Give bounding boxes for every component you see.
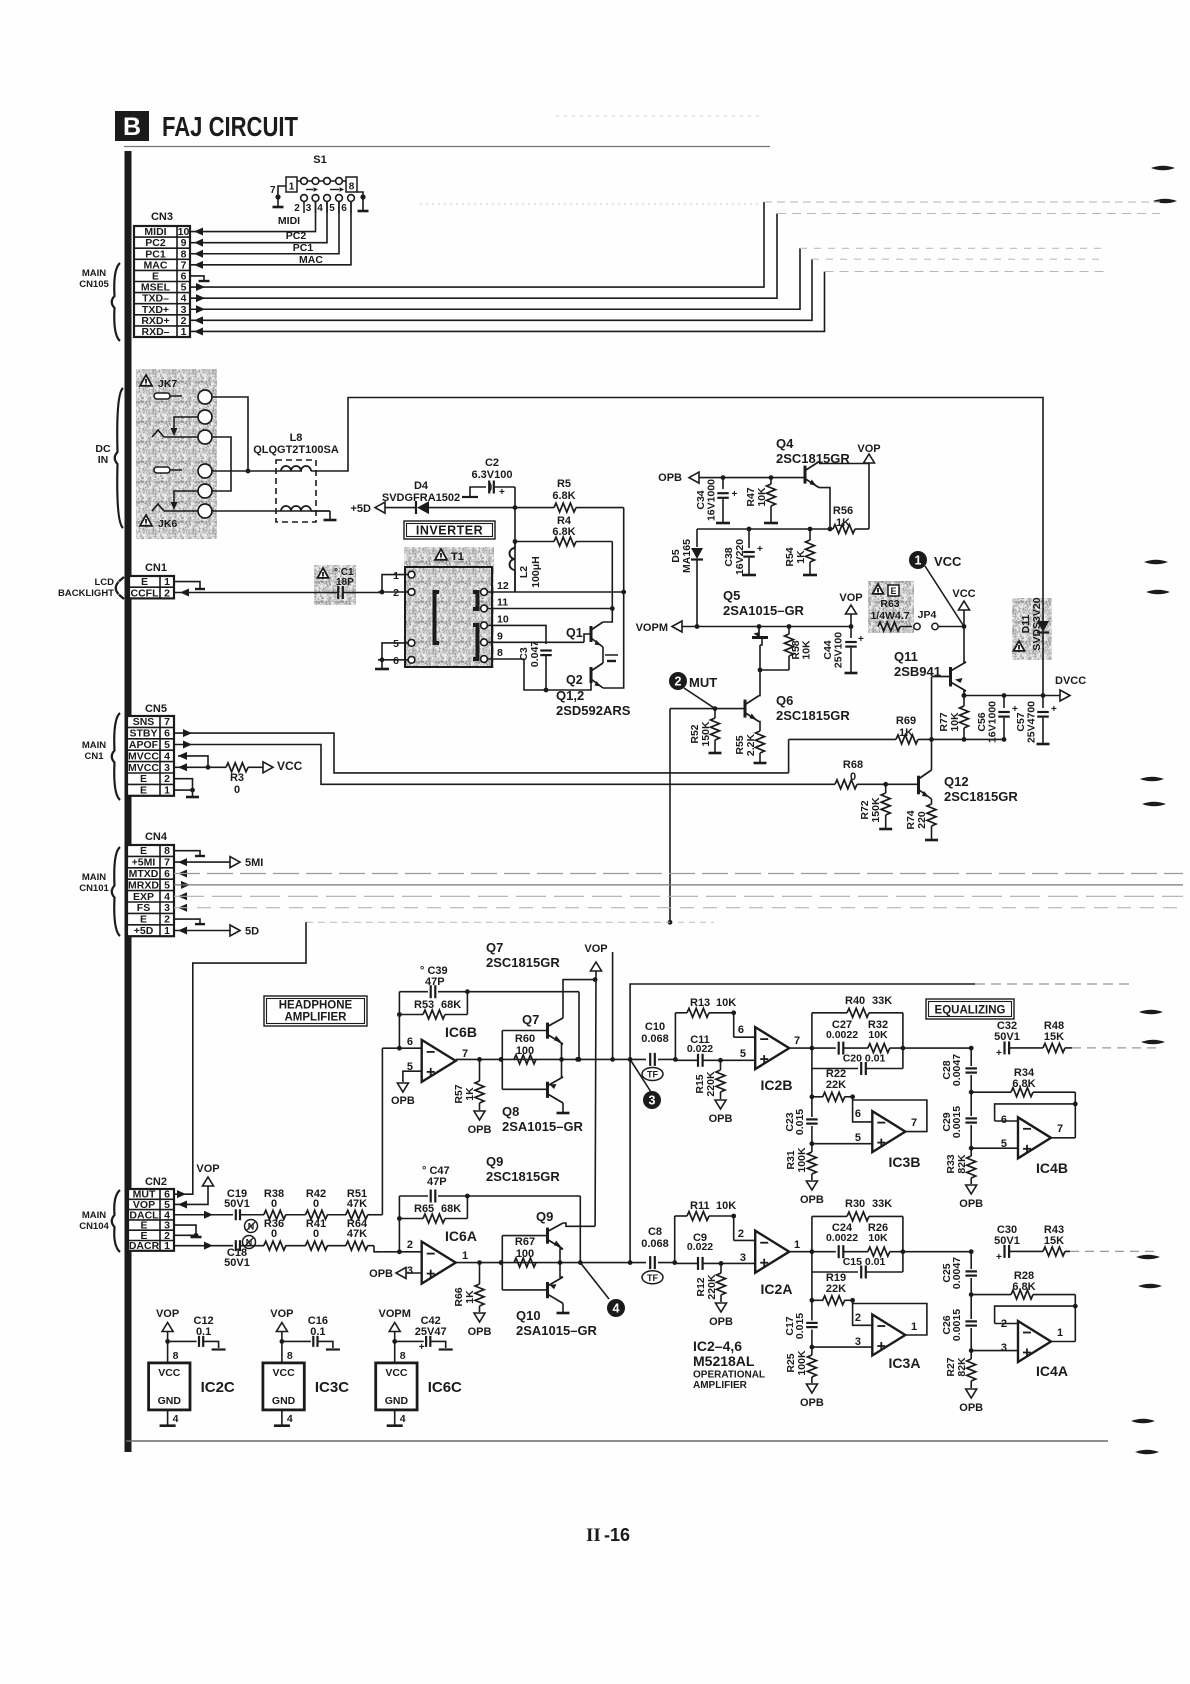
svg-text:MAIN: MAIN bbox=[82, 1210, 106, 1221]
svg-text:AMPLIFIER: AMPLIFIER bbox=[693, 1380, 748, 1391]
wire IC2A output bbox=[789, 1249, 836, 1254]
resistor R4 6.8K bbox=[513, 508, 613, 592]
svg-text:MVCC: MVCC bbox=[128, 750, 159, 762]
title underline bbox=[124, 146, 770, 148]
ground CN4 pin E2 bbox=[174, 919, 205, 924]
svg-text:10K: 10K bbox=[716, 997, 736, 1009]
resistor R38 0 bbox=[264, 1188, 306, 1219]
svg-text:7: 7 bbox=[164, 857, 170, 869]
resistor R12 220K bbox=[695, 1263, 733, 1328]
svg-text:R13: R13 bbox=[690, 997, 710, 1009]
svg-text:MAIN: MAIN bbox=[82, 268, 106, 279]
svg-text:VOPM: VOPM bbox=[636, 622, 668, 634]
ic IC2C bbox=[149, 1308, 235, 1426]
svg-text:2: 2 bbox=[294, 203, 300, 214]
svg-text:STBY: STBY bbox=[129, 728, 157, 740]
wire T1 pin9 to Q1 base bbox=[487, 634, 591, 642]
svg-text:OPB: OPB bbox=[959, 1198, 983, 1210]
svg-text:100K: 100K bbox=[796, 1147, 808, 1173]
svg-text:1/4W4.7: 1/4W4.7 bbox=[870, 610, 909, 622]
svg-text:10K: 10K bbox=[756, 487, 768, 507]
net VOP arrow Q5 bbox=[839, 592, 862, 629]
capacitor C9 0.022 bbox=[675, 1232, 756, 1270]
resistor R55 2.2K bbox=[734, 731, 767, 763]
svg-text:0.0022: 0.0022 bbox=[826, 1232, 858, 1244]
svg-text:25V100: 25V100 bbox=[833, 632, 845, 668]
svg-text:22K: 22K bbox=[826, 1283, 846, 1295]
svg-text:-16: -16 bbox=[604, 1525, 630, 1545]
op-amp IC2A bbox=[738, 1228, 800, 1297]
svg-text:+: + bbox=[732, 489, 738, 500]
connector CN5 bbox=[127, 703, 174, 797]
wire +5MI bbox=[174, 857, 263, 870]
op-amp IC6B bbox=[382, 1024, 501, 1082]
svg-text:0.1: 0.1 bbox=[310, 1326, 325, 1338]
capacitor C25 0.0047 bbox=[941, 1249, 977, 1297]
svg-text:0.047: 0.047 bbox=[529, 641, 541, 667]
svg-text:R65: R65 bbox=[414, 1203, 434, 1215]
capacitor C15 0.01 bbox=[812, 1252, 903, 1279]
svg-text:2: 2 bbox=[164, 914, 170, 926]
resistor R5 6.8K bbox=[513, 478, 624, 512]
label MAIN CN105 bbox=[79, 263, 120, 341]
resistor R64 47K bbox=[346, 1218, 383, 1252]
inductor L8 bbox=[253, 432, 339, 522]
resistor R31 100K bbox=[785, 1144, 824, 1206]
svg-text:MAC: MAC bbox=[299, 254, 323, 266]
resistor R72 150K bbox=[859, 784, 892, 829]
connector CN3 bbox=[134, 211, 190, 338]
diode D4 SVDGFRA1502 bbox=[382, 480, 515, 514]
net VCC arrow R3 bbox=[263, 759, 303, 773]
wire bias line Q4 bbox=[697, 527, 833, 532]
svg-text:MVCC: MVCC bbox=[128, 762, 159, 774]
svg-text:E: E bbox=[890, 586, 896, 596]
svg-text:22K: 22K bbox=[826, 1079, 846, 1091]
capacitor C19 50V1 bbox=[174, 1188, 264, 1220]
svg-text:2: 2 bbox=[164, 587, 170, 599]
svg-text:SVDGFRA1502: SVDGFRA1502 bbox=[382, 492, 460, 504]
svg-text:IC6B: IC6B bbox=[445, 1024, 477, 1040]
resistor R48 15K bbox=[1009, 1020, 1160, 1052]
transistor Q4 2SC1815GR bbox=[776, 436, 850, 488]
resistor R15 220K bbox=[694, 1060, 732, 1125]
wire net vertical x612 bbox=[612, 952, 614, 1059]
wire TXD+ bbox=[190, 248, 1105, 313]
svg-text:2SA1015–GR: 2SA1015–GR bbox=[723, 603, 805, 618]
svg-text:7: 7 bbox=[270, 185, 276, 196]
resistor R56 1K bbox=[697, 505, 869, 534]
svg-text:6: 6 bbox=[164, 868, 170, 880]
capacitor C1 18P bbox=[174, 565, 382, 605]
svg-text:3: 3 bbox=[649, 1094, 656, 1108]
print artifacts right edge bbox=[1131, 166, 1177, 1455]
wire feedback to output IC6B bbox=[467, 992, 581, 1062]
svg-text:HEADPHONE: HEADPHONE bbox=[279, 1000, 353, 1012]
svg-text:1: 1 bbox=[164, 925, 170, 937]
svg-text:5: 5 bbox=[164, 879, 170, 891]
resistor R74 220 bbox=[905, 804, 938, 840]
svg-text:CN2: CN2 bbox=[145, 1176, 167, 1188]
svg-text:OPB: OPB bbox=[468, 1124, 492, 1136]
resistor R53 68K bbox=[397, 992, 467, 1048]
svg-text:47K: 47K bbox=[347, 1198, 367, 1210]
numbered node 2 MUT bbox=[669, 672, 717, 709]
ground CN4 pin E8 bbox=[174, 851, 205, 856]
svg-text:IC6C: IC6C bbox=[428, 1379, 462, 1396]
svg-text:6: 6 bbox=[738, 1024, 744, 1036]
svg-text:3: 3 bbox=[407, 1265, 413, 1277]
resistor R30 33K bbox=[812, 1198, 903, 1252]
resistor R41 0 bbox=[306, 1218, 347, 1250]
svg-text:6: 6 bbox=[164, 728, 170, 740]
svg-text:Q11: Q11 bbox=[894, 649, 918, 664]
svg-text:Q4: Q4 bbox=[776, 436, 794, 451]
capacitor C27 0.0022 bbox=[826, 1019, 868, 1055]
wire T1 pin10 to C3 bbox=[487, 625, 546, 644]
wire DVCC rail bbox=[962, 693, 1060, 698]
wire CN2 VOP to VOP arrow bbox=[174, 1163, 220, 1208]
svg-text:0.015: 0.015 bbox=[794, 1109, 806, 1135]
label IC2-4,6 M5218AL bbox=[693, 1338, 765, 1391]
svg-text:7: 7 bbox=[911, 1117, 917, 1129]
ground CN5 E pins bbox=[174, 779, 199, 797]
svg-text:10K: 10K bbox=[949, 712, 961, 732]
capacitor C47 47P bbox=[399, 1165, 469, 1203]
svg-text:GND: GND bbox=[158, 1395, 182, 1407]
wire CN2 MUT arrow bbox=[177, 1190, 186, 1198]
svg-text:6.8K: 6.8K bbox=[552, 490, 575, 502]
svg-text:MA165: MA165 bbox=[681, 539, 693, 573]
resistor R65 68K bbox=[397, 1196, 467, 1252]
svg-text:OPB: OPB bbox=[658, 472, 682, 484]
svg-text:10K: 10K bbox=[716, 1200, 736, 1212]
svg-text:3: 3 bbox=[164, 762, 170, 774]
ground OPB IC6B pin5 bbox=[391, 1083, 415, 1107]
title text FAJ CIRCUIT bbox=[162, 111, 298, 142]
capacitor C3 0.047 bbox=[518, 641, 552, 690]
resistor R33 82K bbox=[945, 1148, 983, 1210]
svg-text:8: 8 bbox=[400, 1350, 406, 1362]
capacitor C20 0.01 bbox=[812, 1048, 903, 1075]
svg-text:1: 1 bbox=[164, 785, 170, 797]
wire +5D bbox=[174, 925, 259, 938]
svg-text:E: E bbox=[140, 785, 147, 797]
op-amp IC3A bbox=[853, 1304, 927, 1372]
svg-text:2: 2 bbox=[164, 773, 170, 785]
svg-text:0: 0 bbox=[313, 1228, 319, 1240]
wire MRXD bbox=[174, 881, 1183, 889]
svg-text:T1: T1 bbox=[451, 551, 464, 563]
svg-text:5MI: 5MI bbox=[245, 857, 263, 869]
svg-text:Q2: Q2 bbox=[566, 673, 583, 687]
wire DC feed to DVCC rail bbox=[311, 398, 1043, 696]
wire STBY bbox=[174, 729, 789, 773]
svg-text:IC3B: IC3B bbox=[889, 1154, 921, 1170]
net +5D arrow bbox=[351, 502, 386, 515]
svg-text:+: + bbox=[858, 634, 864, 645]
label LCD BACKLIGHT bbox=[58, 577, 124, 599]
svg-text:+: + bbox=[757, 544, 763, 555]
svg-text:2SC1815GR: 2SC1815GR bbox=[486, 1169, 560, 1184]
svg-text:CN101: CN101 bbox=[79, 883, 109, 894]
svg-text:OPB: OPB bbox=[959, 1402, 983, 1414]
svg-text:6: 6 bbox=[407, 1036, 413, 1048]
capacitor C26 0.0015 bbox=[941, 1295, 977, 1353]
svg-text:E: E bbox=[140, 773, 147, 785]
svg-text:0.068: 0.068 bbox=[641, 1238, 669, 1250]
svg-text:CN3: CN3 bbox=[151, 211, 173, 223]
svg-text:C15 0.01: C15 0.01 bbox=[843, 1256, 886, 1268]
wire MIDI from S1 bbox=[190, 202, 316, 236]
svg-text:C10: C10 bbox=[645, 1021, 665, 1033]
svg-text:50V1: 50V1 bbox=[994, 1235, 1020, 1247]
svg-text:25V4700: 25V4700 bbox=[1026, 701, 1038, 743]
net VCC arrow bbox=[952, 588, 975, 629]
capacitor C30 50V1 bbox=[994, 1224, 1020, 1263]
resistor R3 0 bbox=[174, 763, 263, 796]
svg-text:1: 1 bbox=[462, 1250, 468, 1262]
capacitor C2 6.3V100 bbox=[462, 457, 515, 508]
wire RXD- bbox=[190, 272, 1105, 336]
svg-text:L2: L2 bbox=[518, 566, 530, 578]
svg-text:IC3C: IC3C bbox=[315, 1379, 349, 1396]
svg-text:R11: R11 bbox=[690, 1200, 710, 1212]
svg-text:68K: 68K bbox=[441, 999, 461, 1011]
svg-text:CCFL: CCFL bbox=[131, 587, 160, 599]
svg-text:QLQGT2T100SA: QLQGT2T100SA bbox=[253, 444, 339, 456]
svg-text:2SC1815GR: 2SC1815GR bbox=[486, 955, 560, 970]
svg-text:JK7: JK7 bbox=[158, 378, 177, 390]
svg-text:100: 100 bbox=[516, 1248, 534, 1260]
svg-text:68K: 68K bbox=[441, 1203, 461, 1215]
svg-text:+: + bbox=[996, 1252, 1002, 1263]
svg-text:IC2A: IC2A bbox=[761, 1281, 793, 1297]
transistor Q1 bbox=[566, 622, 603, 647]
resistor R11 10K bbox=[672, 1200, 755, 1265]
svg-text:5: 5 bbox=[740, 1048, 746, 1060]
svg-text:MUT: MUT bbox=[689, 675, 717, 690]
svg-text:PC1: PC1 bbox=[293, 242, 314, 254]
svg-text:8: 8 bbox=[497, 647, 503, 659]
svg-text:7: 7 bbox=[794, 1035, 800, 1047]
svg-text:0: 0 bbox=[234, 784, 240, 796]
wire equalizing feed top bbox=[628, 984, 1130, 1265]
svg-text:8: 8 bbox=[349, 182, 355, 193]
svg-text:10K: 10K bbox=[868, 1029, 888, 1041]
svg-text:R40: R40 bbox=[845, 995, 865, 1007]
svg-text:TF: TF bbox=[647, 1273, 658, 1283]
resistor R27 82K bbox=[945, 1351, 983, 1414]
net VOP arrow Q4 bbox=[857, 443, 880, 529]
svg-text:6.8K: 6.8K bbox=[1012, 1281, 1035, 1293]
svg-text:+: + bbox=[996, 1048, 1002, 1059]
resistor R52 150K bbox=[689, 709, 722, 753]
svg-text:MIDI: MIDI bbox=[278, 215, 300, 227]
svg-text:7: 7 bbox=[164, 716, 170, 728]
svg-text:15K: 15K bbox=[1044, 1235, 1064, 1247]
capacitor C38 16V220 bbox=[723, 527, 763, 576]
svg-text:10K: 10K bbox=[868, 1232, 888, 1244]
svg-text:50V1: 50V1 bbox=[224, 1257, 250, 1269]
label MAIN CN104 bbox=[79, 1190, 120, 1252]
svg-text:OPB: OPB bbox=[800, 1397, 824, 1409]
resistor R32 10K bbox=[844, 1019, 971, 1053]
wire IC4B feedback bbox=[995, 1104, 1076, 1121]
svg-text:Q10: Q10 bbox=[516, 1308, 541, 1323]
svg-text:220K: 220K bbox=[706, 1274, 718, 1300]
svg-text:Q12: Q12 bbox=[944, 774, 969, 789]
svg-text:0: 0 bbox=[271, 1198, 277, 1210]
svg-text:220: 220 bbox=[916, 811, 928, 829]
transistor Q8 2SA1015-GR bbox=[502, 1059, 584, 1134]
ground CN3 pin E bbox=[190, 276, 210, 281]
svg-text:MAIN: MAIN bbox=[82, 740, 106, 751]
svg-text:EQUALIZING: EQUALIZING bbox=[935, 1005, 1006, 1017]
svg-text:FAJ CIRCUIT: FAJ CIRCUIT bbox=[162, 111, 298, 142]
svg-text:VOP: VOP bbox=[839, 592, 862, 604]
svg-text:2SA1015–GR: 2SA1015–GR bbox=[516, 1323, 598, 1338]
svg-text:3: 3 bbox=[306, 203, 312, 214]
title block B bbox=[115, 111, 149, 141]
capacitor C28 0.0047 bbox=[941, 1046, 977, 1095]
resistor R68 0 bbox=[835, 759, 888, 789]
svg-text:Q8: Q8 bbox=[502, 1104, 519, 1119]
svg-text:Q1: Q1 bbox=[566, 626, 583, 640]
svg-text:Q5: Q5 bbox=[723, 588, 740, 603]
svg-text:Q7: Q7 bbox=[486, 940, 503, 955]
transistor Q6 2SC1815GR bbox=[745, 668, 850, 731]
resistor R54 1K bbox=[784, 527, 817, 575]
svg-text:47P: 47P bbox=[427, 1176, 447, 1188]
diode D11 SVDS3V20 bbox=[1012, 597, 1052, 660]
svg-text:1: 1 bbox=[289, 182, 295, 193]
capacitor C11 0.022 bbox=[675, 1034, 755, 1067]
capacitor C34 16V1000 bbox=[695, 475, 738, 523]
svg-text:4: 4 bbox=[164, 891, 170, 903]
label Q1,2 2SD592ARS bbox=[556, 688, 631, 718]
svg-text:8: 8 bbox=[287, 1350, 293, 1362]
svg-text:5: 5 bbox=[393, 638, 399, 650]
capacitor C18 50V1 bbox=[174, 1240, 264, 1269]
svg-text:BACKLIGHT: BACKLIGHT bbox=[58, 588, 114, 599]
svg-text:3: 3 bbox=[855, 1336, 861, 1348]
svg-text:3: 3 bbox=[1001, 1342, 1007, 1354]
svg-text:CN5: CN5 bbox=[145, 703, 167, 715]
svg-text:JK6: JK6 bbox=[158, 518, 177, 530]
wire FS bbox=[174, 904, 1183, 912]
svg-text:R69: R69 bbox=[896, 715, 916, 727]
svg-text:220K: 220K bbox=[705, 1071, 717, 1097]
op-amp IC4A bbox=[971, 1318, 1075, 1379]
svg-text:2SA1015–GR: 2SA1015–GR bbox=[502, 1119, 584, 1134]
svg-text:0.0047: 0.0047 bbox=[951, 1257, 963, 1289]
symbol N circle DACL bbox=[245, 1220, 258, 1233]
svg-text:8: 8 bbox=[164, 845, 170, 857]
svg-text:4: 4 bbox=[613, 1302, 620, 1316]
svg-text:5D: 5D bbox=[245, 926, 259, 938]
svg-text:CN104: CN104 bbox=[79, 1221, 109, 1232]
net OPB arrow IC6A pin3 bbox=[369, 1268, 406, 1281]
numbered node 3 bbox=[630, 1059, 661, 1109]
resistor R13 10K bbox=[673, 997, 755, 1062]
svg-text:TF: TF bbox=[647, 1070, 658, 1080]
numbered node 1 VCC bbox=[909, 551, 964, 627]
wire PC2 from S1 bbox=[190, 202, 327, 247]
svg-text:VCC: VCC bbox=[934, 554, 962, 569]
svg-text:S1: S1 bbox=[313, 154, 326, 166]
svg-text:C20 0.01: C20 0.01 bbox=[843, 1053, 886, 1065]
net OPB arrow Q4 bbox=[658, 472, 805, 484]
svg-text:VOP: VOP bbox=[156, 1308, 179, 1320]
op-amp IC6A bbox=[382, 1228, 477, 1284]
svg-text:APOF: APOF bbox=[129, 739, 159, 751]
capacitor C32 50V1 bbox=[994, 1020, 1020, 1059]
svg-text:0.0015: 0.0015 bbox=[951, 1106, 963, 1138]
svg-text:0: 0 bbox=[313, 1198, 319, 1210]
resistor R69 1K bbox=[789, 715, 1007, 744]
svg-text:0.015: 0.015 bbox=[794, 1313, 806, 1339]
svg-text:OPB: OPB bbox=[800, 1194, 824, 1206]
svg-text:R60: R60 bbox=[515, 1033, 535, 1045]
svg-text:OPB: OPB bbox=[468, 1326, 492, 1338]
connector CN1 bbox=[129, 562, 174, 599]
svg-text:5: 5 bbox=[164, 739, 170, 751]
capacitor C24 0.0022 bbox=[826, 1222, 858, 1258]
wire RXD+ bbox=[190, 259, 1105, 324]
svg-text:100μH: 100μH bbox=[530, 556, 542, 588]
transistor Q12 2SC1815GR bbox=[886, 739, 1019, 804]
wire MSEL bbox=[190, 202, 1160, 291]
svg-text:R30: R30 bbox=[845, 1198, 865, 1210]
ground CN1 pin E bbox=[174, 582, 205, 589]
svg-text:7: 7 bbox=[462, 1048, 468, 1060]
svg-text:+5D: +5D bbox=[134, 925, 154, 937]
EQUALIZING label box bbox=[926, 999, 1014, 1019]
ic IC6C bbox=[376, 1308, 462, 1426]
svg-text:GND: GND bbox=[385, 1395, 409, 1407]
wire MVCC pin4 bbox=[178, 752, 208, 767]
svg-text:R56: R56 bbox=[833, 505, 853, 517]
HEADPHONE AMPLIFIER label box bbox=[264, 996, 367, 1026]
resistor R36 0 bbox=[264, 1218, 306, 1250]
wire STBY line up bbox=[788, 739, 790, 773]
transformer T1 bbox=[393, 547, 509, 668]
svg-text:DACR: DACR bbox=[129, 1240, 160, 1252]
svg-text:82K: 82K bbox=[956, 1154, 968, 1174]
resistor R51 47K bbox=[346, 1048, 383, 1219]
label Q7 top bbox=[486, 940, 560, 970]
capacitor C29 0.0015 bbox=[941, 1092, 977, 1150]
svg-text:3: 3 bbox=[740, 1252, 746, 1264]
svg-text:OPERATIONAL: OPERATIONAL bbox=[693, 1370, 765, 1381]
ic IC3C bbox=[263, 1308, 349, 1426]
svg-text:6: 6 bbox=[1001, 1114, 1007, 1126]
svg-text:1K: 1K bbox=[464, 1290, 476, 1304]
svg-text:1: 1 bbox=[181, 326, 187, 338]
wire IC6B output bbox=[456, 1057, 646, 1062]
resistor R42 0 bbox=[306, 1188, 347, 1219]
svg-text:8: 8 bbox=[173, 1350, 179, 1362]
svg-text:VCC: VCC bbox=[952, 588, 975, 600]
svg-text:5: 5 bbox=[855, 1132, 861, 1144]
wire MAC from S1 bbox=[190, 202, 351, 269]
svg-text:VCC: VCC bbox=[277, 759, 303, 773]
svg-text:0.0047: 0.0047 bbox=[951, 1054, 963, 1086]
op-amp IC4B bbox=[971, 1114, 1075, 1176]
svg-text:OPB: OPB bbox=[391, 1095, 415, 1107]
svg-text:12: 12 bbox=[497, 580, 509, 592]
